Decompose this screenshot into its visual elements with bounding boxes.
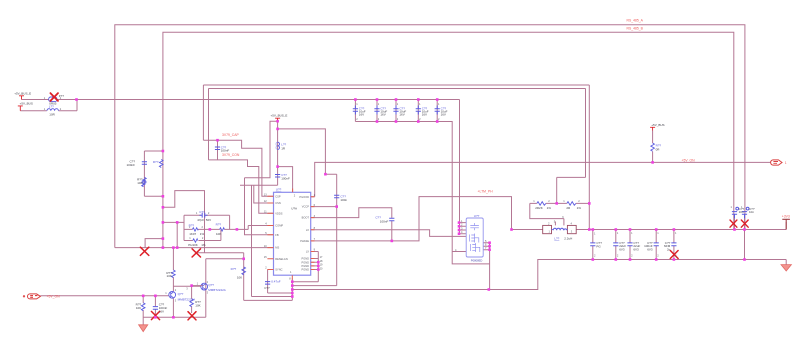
svg-text:SYNC: SYNC [275,268,282,272]
svg-text:+LTM_PH: +LTM_PH [478,190,494,194]
svg-text:U??: U?? [276,188,282,192]
svg-text:+5V_BUS: +5V_BUS [20,102,33,106]
svg-text:16V: 16V [441,113,446,117]
svg-text:VDDS: VDDS [275,211,282,215]
svg-text:10K: 10K [237,275,242,279]
svg-text:10K: 10K [195,303,200,307]
svg-text:2.2uH: 2.2uH [564,237,572,241]
svg-text:16V: 16V [399,113,404,117]
svg-text:CSN: CSN [275,201,281,205]
svg-text:PGND: PGND [302,264,310,268]
svg-text:1%: 1% [201,243,206,247]
svg-text:PGOOD: PGOOD [299,195,309,199]
svg-text:10K: 10K [136,306,141,310]
svg-text:1K07: 1K07 [189,232,196,236]
svg-text:PGND: PGND [302,257,310,261]
svg-text:10n: 10n [749,210,754,214]
svg-text:10K: 10K [137,181,142,185]
svg-text:C??: C?? [264,286,270,290]
svg-text:RESELGN: RESELGN [275,257,288,261]
svg-text:MS: MS [275,246,279,250]
svg-text:10R: 10R [49,113,55,117]
svg-text:100nF: 100nF [126,163,135,167]
svg-text:CSP: CSP [275,194,281,198]
svg-text:PG: PG [596,244,601,248]
svg-text:LX: LX [306,228,309,232]
svg-text:COMP: COMP [275,224,283,228]
svg-text:BOOT: BOOT [302,216,310,220]
svg-text:FB: FB [275,233,279,237]
svg-text:+5V_BUS_E: +5V_BUS_E [271,114,288,118]
svg-text:2R2K: 2R2K [535,206,543,210]
svg-text:10K: 10K [216,232,221,236]
svg-text:100nF: 100nF [221,149,230,153]
svg-text:47pF: 47pF [197,218,204,222]
svg-text:16V: 16V [380,113,385,117]
svg-text:2n: 2n [667,247,671,251]
svg-text:U?A: U?A [291,206,297,210]
svg-text:L??: L?? [554,237,559,241]
svg-text:+5V_ON: +5V_ON [682,158,696,162]
svg-text:R??: R?? [216,222,222,226]
svg-text:LX: LX [306,250,309,254]
svg-text:1: 1 [785,161,787,165]
svg-text:100nF: 100nF [281,177,290,181]
svg-text:6V3: 6V3 [619,247,625,251]
svg-text:10K: 10K [167,274,172,278]
svg-text:U??: U?? [474,214,480,218]
svg-text:100n: 100n [340,198,347,202]
svg-text:+5V_BUS_E: +5V_BUS_E [14,91,31,95]
svg-text:1%: 1% [577,206,582,210]
svg-text:Q??: Q?? [178,292,184,296]
svg-text:16V: 16V [422,113,427,117]
svg-text:PH10K: PH10K [188,243,198,247]
svg-text:10n: 10n [739,210,744,214]
svg-text:R??: R?? [153,160,159,164]
svg-text:PHASE: PHASE [300,239,309,243]
svg-text:L??: L?? [49,104,54,108]
svg-text:+5V_ON: +5V_ON [47,294,61,298]
svg-text:+3V3: +3V3 [782,214,790,218]
svg-text:100nF: 100nF [380,219,389,223]
svg-text:1%: 1% [200,232,205,236]
svg-text:50V: 50V [206,218,211,222]
svg-text:RS_485_B: RS_485_B [627,26,644,30]
svg-text:MMBT2222A: MMBT2222A [178,297,196,301]
svg-text:16V: 16V [159,309,164,313]
svg-text:R??: R?? [231,267,237,271]
svg-text:PGND: PGND [302,260,310,264]
svg-text:1%: 1% [547,206,552,210]
svg-text:6V3: 6V3 [633,247,639,251]
svg-text:6V3: 6V3 [647,247,653,251]
svg-text:3V79_CAP: 3V79_CAP [222,133,240,137]
svg-text:P0808ED: P0808ED [471,258,483,262]
svg-text:Q??: Q?? [208,283,214,287]
svg-text:0.47uF: 0.47uF [271,280,281,284]
svg-text:+5V_BUS: +5V_BUS [651,123,664,127]
svg-text:PGND: PGND [302,268,310,272]
svg-text:VCCP: VCCP [302,205,309,209]
svg-text:16V: 16V [359,113,364,117]
svg-text:C??: C?? [199,210,205,214]
svg-text:3V79_CON: 3V79_CON [222,153,240,157]
svg-text:MMBT2222A: MMBT2222A [208,288,226,292]
svg-text:RS_485_A: RS_485_A [627,19,644,23]
